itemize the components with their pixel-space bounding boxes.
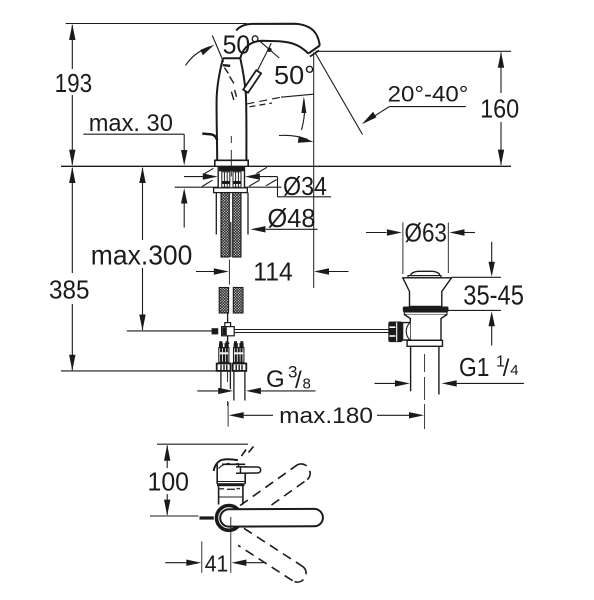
drain side port (403, 323, 411, 340)
svg-text:160: 160 (480, 94, 519, 124)
drain plug lip (408, 276, 441, 278)
dimension 385 vertical line (69, 167, 75, 371)
dimension Ø34 arrows (184, 173, 331, 196)
hose connector pipes (221, 371, 245, 401)
dimension 41 (165, 542, 263, 573)
svg-text:Ø63: Ø63 (405, 218, 447, 248)
label G1 1/4 (459, 352, 519, 382)
pop-up rod knob (side of body) (202, 134, 217, 141)
dimension G1 1/4 arrows (375, 380, 524, 386)
logo squiggles (220, 488, 241, 491)
deck hatch left (202, 168, 214, 186)
wire hose end level line (385 bottom) (61, 370, 217, 372)
svg-text:50°: 50° (274, 60, 315, 90)
faucet body outline (217, 58, 247, 160)
wire spout outlet level line (316, 50, 512, 52)
svg-text:41: 41 (205, 551, 229, 577)
faucet base flange (215, 160, 248, 166)
handle lever (solid, raised 50°) (243, 70, 261, 93)
mounting studs (216, 193, 248, 235)
arc arrow up (50° travel) (301, 97, 306, 131)
svg-text:114: 114 (253, 257, 292, 287)
drain body (404, 315, 447, 341)
drain bottom nut (407, 340, 442, 346)
svg-text:385: 385 (49, 275, 90, 305)
dashed handle (up position) (225, 68, 237, 100)
mounting nut / horseshoe washer (214, 188, 248, 193)
drain centerline (424, 354, 426, 429)
spout aerator line (310, 50, 319, 56)
dimension 35-45 (449, 242, 501, 346)
front view centerline (230, 517, 232, 573)
dimension Ø63 (366, 223, 475, 275)
arc arrow right (50° travel) (279, 135, 314, 142)
wire deck / countertop line (61, 165, 511, 167)
label G 3/8 (266, 363, 311, 394)
pop-up rod tail (226, 336, 230, 343)
hose connector caps with ears (219, 341, 244, 347)
drain pop-up plug cap (411, 271, 440, 275)
wire spout tip level line (front view) (157, 443, 248, 445)
svg-text:max. 30: max. 30 (89, 110, 173, 137)
pop-up horizontal rod with max.300 extension (127, 330, 389, 333)
side port inner arc (406, 323, 410, 340)
svg-text:35-45: 35-45 (463, 279, 524, 310)
pop-up rod upper (230, 222, 232, 257)
dimension max.300 vertical line (139, 167, 145, 331)
dimension 160 vertical line (498, 52, 504, 166)
dimension 100 (164, 445, 170, 516)
svg-text:193: 193 (55, 68, 93, 98)
faucet spout outline (236, 24, 319, 59)
deck underside line (175, 186, 282, 188)
svg-text:/: / (503, 355, 510, 382)
faucet head front view: beak arc (214, 459, 238, 471)
dashed lever down position (238, 528, 306, 582)
hose connector crimps (219, 348, 244, 363)
pop-up rod lower (227, 313, 229, 323)
wire spout projection vertical (x=313.7) (313, 53, 315, 289)
wire top reference line (handle max height) (66, 23, 247, 25)
wire spout swivel diagonal (315, 53, 363, 135)
head black band (217, 483, 245, 486)
dimension G3/8 arrows (197, 388, 315, 394)
threaded shank walls (218, 166, 244, 187)
pop-up rod fitting (225, 323, 231, 328)
svg-text:20°-40°: 20°-40° (388, 82, 469, 107)
dashed lever up position (240, 464, 310, 522)
base gasket (black band) (219, 167, 244, 171)
pull-rod knob (knurled) (388, 322, 402, 343)
dimension Ø48 leader (251, 226, 318, 232)
wire handle horizontal axis (dashed + solid) (247, 94, 314, 107)
svg-text:max.300: max.300 (91, 240, 193, 271)
svg-text:Ø48: Ø48 (268, 203, 316, 233)
head body (217, 464, 245, 484)
svg-text:/: / (295, 367, 302, 394)
dimension max.180 (228, 402, 424, 427)
dashed raised head-lever (242, 447, 254, 457)
pop-up rod clamp (212, 327, 235, 336)
arc arrow for 50° handle tilt (186, 45, 215, 66)
drain seal flange (404, 312, 447, 315)
hose crimps inside shank (222, 172, 241, 187)
drain cone (Ø63 flange) (403, 278, 452, 307)
faucet centerline (230, 136, 232, 177)
deck hatch right (249, 167, 277, 186)
escutcheon ring (217, 506, 242, 531)
body cap step mark (223, 64, 230, 67)
solid lever (horizontal) (220, 509, 323, 527)
flexible hoses (lower section, braided) (219, 288, 243, 314)
drain rubber seal (black band) (403, 307, 449, 313)
wire pop-up rod level line (front view) (150, 515, 199, 517)
svg-text:100: 100 (148, 467, 190, 497)
lower head body (219, 486, 243, 504)
head lever cylinder (236, 464, 261, 474)
dimension 193 vertical line (69, 24, 75, 166)
svg-text:max.180: max.180 (279, 403, 373, 428)
pivot cross marker (258, 41, 280, 70)
connector centerline (227, 371, 229, 406)
svg-text:Ø34: Ø34 (283, 171, 327, 201)
dimension 114 (196, 260, 349, 285)
wire handle axis extension diagonal (212, 36, 223, 63)
drain tailpipe (411, 346, 439, 394)
dimension max. 30 leader and arrows (83, 134, 187, 227)
svg-text:8: 8 (303, 376, 311, 393)
pop-up rod front view (tab) (200, 516, 214, 519)
flexible hoses (upper section, braided) (221, 193, 241, 257)
svg-text:4: 4 (510, 362, 518, 379)
svg-text:G: G (266, 366, 285, 393)
svg-text:G1: G1 (459, 352, 489, 382)
hose connector nuts G3/8 (217, 364, 247, 371)
